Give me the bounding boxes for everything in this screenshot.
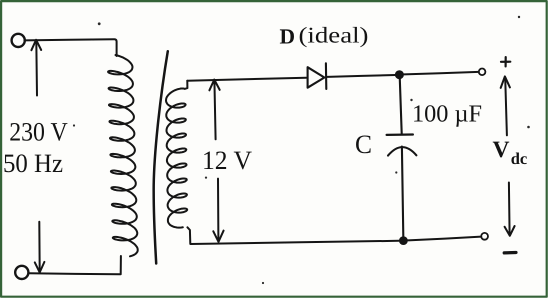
arrow 12V up [209, 80, 219, 140]
transformer primary winding [108, 55, 138, 256]
arrow 12V down [213, 179, 223, 242]
arrow 230V down [35, 222, 45, 273]
svg-text:100 µF: 100 µF [412, 100, 482, 127]
wire secondary bottom to node B [191, 241, 399, 244]
svg-text:230 V: 230 V [9, 117, 67, 147]
svg-text:12 V: 12 V [202, 145, 252, 175]
wire node B to - terminal [408, 237, 481, 241]
svg-text:C: C [355, 129, 372, 159]
terminal top-right (+) [479, 69, 486, 76]
svg-text:dc: dc [511, 149, 528, 168]
svg-text:D: D [280, 24, 296, 48]
arrow Vdc up [501, 76, 510, 135]
capacitor C top plate [387, 133, 413, 136]
diode D cathode bar [325, 63, 327, 89]
speckles [73, 16, 530, 284]
svg-text:50 Hz: 50 Hz [3, 148, 63, 178]
transformer core [154, 51, 168, 263]
diode D triangle [308, 67, 325, 88]
terminal top-left (AC input +) [12, 34, 25, 47]
wire top-left: terminal to primary top [24, 39, 116, 56]
terminal bottom-right (-) [481, 233, 488, 240]
transformer secondary winding [166, 81, 187, 228]
svg-text:(ideal): (ideal) [299, 23, 369, 48]
wire secondary bottom hook [187, 227, 190, 244]
arrow 230V up [31, 40, 41, 96]
terminal bottom-left (AC input -) [15, 266, 28, 279]
wire capacitor to node B [402, 147, 403, 237]
capacitor C curved plate [388, 147, 416, 155]
wire node A to + terminal [404, 72, 479, 75]
minus sign [504, 251, 516, 255]
svg-text:V: V [493, 137, 510, 163]
wire secondary to diode [187, 78, 306, 81]
wire node A down to capacitor [400, 79, 402, 134]
plus sign [501, 57, 510, 66]
wire bottom-left: terminal to primary bottom [29, 256, 121, 274]
arrow Vdc down [505, 183, 515, 236]
wire diode to node A [327, 75, 395, 77]
node B junction dot [399, 236, 408, 245]
node A junction dot [395, 70, 404, 79]
